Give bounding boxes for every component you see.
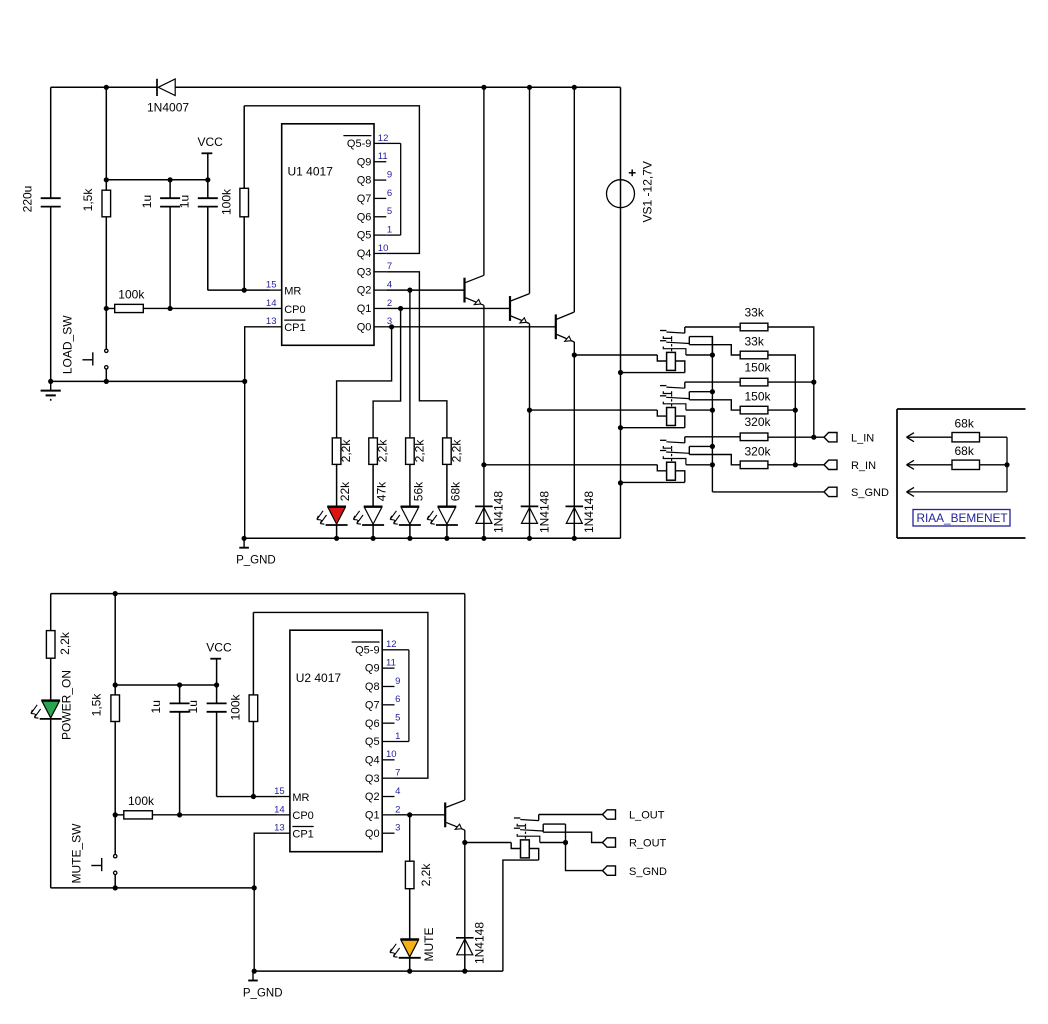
relay K4 contact 2 fixed stub: [514, 827, 520, 829]
wire relay K4 contact1 out to L_OUT: [539, 814, 603, 816]
ground earth symbol: [50, 381, 52, 390]
wire T1 emitter down: [483, 305, 485, 464]
wire VCC to MR pin15: [208, 289, 270, 291]
wire 150k#1 to L_IN bus: [768, 381, 814, 383]
svg-text:1N4148: 1N4148: [537, 491, 551, 533]
svg-text:7: 7: [387, 261, 392, 272]
wire mute switch rail: [51, 887, 255, 889]
wire switch ground rail: [51, 380, 245, 382]
wire relay K1 coil return to VS1: [621, 372, 685, 374]
RIAA_BEMENET title box: [913, 510, 1010, 527]
wire relay K3 armature to bus: [686, 464, 713, 466]
wire P_GND bottom rail lower: [253, 970, 503, 972]
resistor 2,2k LED column 1: [332, 438, 341, 465]
overline on Q5-9 label: [343, 135, 371, 137]
svg-text:14: 14: [266, 298, 277, 309]
capacitor C1 220u body: [50, 87, 52, 198]
svg-text:R_IN: R_IN: [851, 460, 876, 472]
svg-text:Q2: Q2: [365, 791, 380, 803]
node VS1 / relay3 return: [618, 480, 623, 485]
relay K2 coil left lead: [657, 410, 666, 416]
svg-text:100k: 100k: [128, 794, 155, 808]
U1 input pin stubs left side: [270, 289, 282, 291]
wire relay K4 coil return to ground rail: [503, 860, 539, 971]
svg-text:Q3: Q3: [365, 773, 380, 785]
resistor 320k row B: [740, 461, 768, 469]
svg-text:S_GND: S_GND: [629, 866, 667, 878]
svg-text:2,2k: 2,2k: [339, 439, 353, 463]
arrow into S_GND: [907, 491, 1008, 493]
LED POWER_ON green: [41, 699, 60, 701]
node L_IN bus / 150k#1: [811, 380, 816, 385]
svg-text:1: 1: [395, 731, 400, 742]
wire Q4 pin10 loop to MR network: [244, 106, 419, 254]
wire U2 Q1 pin2 to T4 base: [395, 814, 446, 816]
svg-text:2: 2: [387, 298, 392, 309]
relay K1 contact 2 riser wire: [688, 337, 690, 345]
svg-text:P_GND: P_GND: [236, 555, 276, 567]
wire T4 collector: [464, 594, 466, 800]
relay K3 contact 2 riser wire: [688, 446, 690, 454]
svg-text:Q1: Q1: [357, 303, 372, 315]
LED D4 indicator: [401, 506, 420, 508]
node lrail / C6 VCC: [214, 682, 219, 687]
wire U2 Q5-9/Q5 feedback bracket: [395, 649, 409, 651]
node 1N4148 #1 / ground rail: [481, 536, 486, 541]
resistor 2,2k LED column 4: [443, 438, 452, 465]
connector L_IN: [824, 433, 837, 442]
node T2 emitter / relay 2 feed: [527, 408, 532, 413]
relay K3 contact 1 movable arm: [666, 442, 684, 443]
relay K4 coil: [521, 840, 530, 858]
wire lower supply rail: [51, 593, 465, 595]
svg-text:Q6: Q6: [365, 718, 380, 730]
LED D2 red: [327, 506, 346, 508]
arrow into R_IN: [907, 464, 1008, 466]
node VS1 / relay2 return: [618, 425, 623, 430]
svg-text:5: 5: [387, 206, 392, 217]
relay K3 contact 1 fixed stub: [660, 439, 666, 441]
svg-text:68k: 68k: [448, 481, 462, 501]
wire Q5-9/Q5 feedback bracket: [386, 142, 400, 144]
resistor R3 100k horizontal: [106, 307, 114, 309]
svg-text:CP0: CP0: [284, 304, 305, 316]
relay K2 contact 2 riser wire: [688, 392, 690, 400]
relay K3 actuator dashed link: [671, 449, 673, 462]
switch S1 LOAD_SW push-button: [105, 349, 108, 352]
svg-text:56k: 56k: [411, 481, 425, 501]
relay K4 contact 1 movable arm: [520, 820, 538, 821]
node R_IN bus / 150k#2: [793, 408, 798, 413]
svg-text:LOAD_SW: LOAD_SW: [61, 315, 75, 374]
VS1 plus sign: [629, 172, 636, 174]
svg-text:1: 1: [387, 225, 392, 236]
relay K1 contact 1 fixed stub: [660, 330, 666, 332]
wire relay K2 contact2 outA to S_GND bus: [689, 391, 712, 393]
node mute rail / S2: [113, 885, 118, 890]
svg-text:Q4: Q4: [365, 754, 380, 766]
relay K2 coil right lead: [675, 416, 684, 428]
svg-text:1,5k: 1,5k: [81, 188, 95, 212]
node VS1 / relay1 return: [618, 370, 623, 375]
node rail / C2: [168, 177, 173, 182]
relay K1 contact 2 fixed stub: [660, 340, 666, 342]
wire Q2 branch to LED column 3: [409, 290, 411, 438]
svg-text:33k: 33k: [745, 335, 765, 349]
svg-text:2,2k: 2,2k: [58, 631, 72, 655]
wire relay K1 armature to bus: [686, 354, 713, 356]
switch S2 actuator: [101, 858, 103, 871]
svg-text:320k: 320k: [745, 415, 772, 429]
node bus / relay2 outA: [710, 389, 715, 394]
arrow into L_IN: [907, 436, 1008, 438]
wire relay K3 contact2 outB to resistor: [689, 455, 740, 465]
svg-text:Q4: Q4: [357, 248, 372, 260]
wire S_GND bus vertical: [711, 337, 713, 492]
node 1N4148 #3 / ground rail: [572, 536, 577, 541]
resistor R6 100k vertical lower: [252, 612, 254, 695]
node R7 / 1,5k lower: [113, 812, 118, 817]
svg-text:10: 10: [378, 243, 389, 254]
LED MUTE yellow: [400, 938, 419, 940]
wire S_GND bus to connector: [712, 491, 824, 493]
relay K2 armature bar: [663, 402, 686, 411]
wire T1 collector: [483, 87, 485, 275]
node Q1 lower branch: [407, 812, 412, 817]
overline on U2 CP1 label: [292, 826, 313, 828]
svg-text:9: 9: [395, 676, 400, 687]
svg-text:2,2k: 2,2k: [419, 863, 433, 887]
U1 output pin stubs right side: [374, 142, 386, 144]
svg-text:5: 5: [395, 713, 400, 724]
resistor R7 100k horizontal lower: [115, 814, 124, 816]
node R_IN bus / 320k#2: [793, 462, 798, 467]
svg-text:13: 13: [266, 316, 277, 327]
wire relay K4 contact2 outA to bus: [543, 823, 565, 825]
svg-text:68k: 68k: [955, 444, 975, 458]
relay K1 actuator dashed link: [671, 339, 673, 352]
wire S_GND lower bus: [566, 824, 603, 871]
node top rail / T3 collector: [572, 85, 577, 90]
svg-text:1N4148: 1N4148: [582, 491, 596, 533]
transistor T2: [509, 296, 511, 321]
resistor R5 1,5k lower: [114, 594, 116, 695]
svg-text:CP1: CP1: [292, 829, 313, 841]
resistor 150k row A: [740, 378, 768, 386]
relay K4 coil left lead: [511, 843, 520, 849]
wire relay K3 contact1 out to resistor: [685, 436, 740, 438]
resistor 320k row A: [740, 433, 768, 441]
relay K1 linkage tick bar: [663, 336, 671, 338]
relay K3 coil left lead: [657, 465, 666, 471]
svg-text:Q7: Q7: [357, 193, 372, 205]
node LED column 1 / ground rail: [334, 536, 339, 541]
svg-text:Q5-9: Q5-9: [355, 644, 379, 656]
wire R7 to U2 CP0: [152, 814, 277, 816]
svg-text:POWER_ON: POWER_ON: [60, 670, 74, 740]
capacitor C3 1u: [207, 180, 209, 198]
relay K1 contact 2 movable arm: [666, 342, 689, 343]
node bus / relay3 outA: [710, 444, 715, 449]
svg-text:12: 12: [386, 639, 397, 650]
node rail / S1: [104, 379, 109, 384]
svg-text:11: 11: [386, 658, 396, 669]
switch S2 MUTE_SW push-button: [114, 855, 117, 858]
node rail / left column: [48, 379, 53, 384]
svg-text:RIAA_BEMENET: RIAA_BEMENET: [917, 511, 1008, 525]
overline on CP1 label: [284, 319, 305, 321]
relay K1 contact 1 movable arm: [666, 332, 684, 333]
node T3 emitter / relay 1 feed: [572, 352, 577, 357]
resistor R4 2,2k power led: [50, 594, 52, 631]
overline on U2 Q5-9 label: [352, 641, 380, 643]
wire lower vcc rail: [115, 684, 216, 686]
relay K2 contact 2 movable arm: [666, 397, 689, 398]
svg-text:P_GND: P_GND: [243, 987, 283, 999]
svg-text:220u: 220u: [21, 186, 35, 213]
svg-text:MR: MR: [284, 285, 301, 297]
svg-text:2,2k: 2,2k: [376, 439, 390, 463]
svg-text:MR: MR: [292, 792, 309, 804]
RIAA_BEMENET box outline: [896, 409, 898, 538]
resistor 150k row B: [740, 406, 768, 414]
wire Q1 branch down to mute resistor: [409, 815, 411, 861]
svg-text:VS1 -12,7V: VS1 -12,7V: [641, 161, 655, 222]
node 1N4148 #2 / ground rail: [527, 536, 532, 541]
svg-text:1u: 1u: [177, 195, 191, 208]
wire relay K2 coil return to VS1: [621, 427, 685, 429]
node CP1 lower / switch rail: [252, 885, 257, 890]
wire T2 collector: [529, 87, 531, 293]
capacitor C6 1u lower: [216, 685, 218, 703]
resistor R8 2,2k mute: [405, 861, 414, 889]
svg-text:Q0: Q0: [357, 321, 372, 333]
resistor 68k #2: [952, 460, 980, 469]
relay K3 contact 2 fixed stub: [660, 450, 666, 452]
node bus / relay K2: [710, 408, 715, 413]
wire relay K4 contact2 outB to R_OUT: [543, 832, 602, 842]
wire relay K2 armature to bus: [686, 409, 713, 411]
relay K3 coil right lead: [675, 471, 684, 483]
relay K2 linkage tick bar: [663, 391, 671, 393]
svg-text:Q8: Q8: [365, 681, 380, 693]
LED D5 indicator: [438, 506, 457, 508]
svg-text:100k: 100k: [118, 287, 145, 301]
wire relay K4 coil feed: [465, 842, 511, 844]
svg-text:7: 7: [395, 768, 400, 779]
wire Q3 pin7 to LED column 4: [386, 272, 447, 438]
svg-text:L_IN: L_IN: [851, 432, 874, 444]
svg-text:1u: 1u: [140, 195, 154, 208]
svg-text:Q9: Q9: [365, 663, 380, 675]
node L_IN bus / 320k#1: [811, 435, 816, 440]
svg-text:U1 4017: U1 4017: [288, 165, 334, 179]
svg-text:Q3: Q3: [357, 266, 372, 278]
wire 33k#2 to R_IN bus: [768, 355, 795, 465]
transistor T3: [555, 314, 557, 339]
capacitor C2 1u: [169, 180, 171, 198]
resistor 2,2k LED column 2: [369, 438, 378, 465]
node top rail / 1,5k column: [104, 85, 109, 90]
node T1 emitter / relay 3 feed: [481, 462, 486, 467]
relay K1 contact 1 riser wire: [684, 327, 686, 333]
wire Q1 branch to LED column 2: [373, 308, 401, 437]
svg-text:33k: 33k: [745, 305, 765, 319]
node LED column 2 / ground rail: [371, 536, 376, 541]
relay K2 coil: [667, 408, 676, 426]
svg-text:1N4148: 1N4148: [492, 491, 506, 533]
svg-text:47k: 47k: [375, 481, 389, 501]
svg-text:1N4007: 1N4007: [147, 101, 189, 115]
wire T4 emitter down: [464, 830, 466, 842]
wire P_GND bottom rail upper: [244, 537, 620, 539]
svg-text:Q5: Q5: [357, 230, 372, 242]
wire Q0 branch to LED column 1: [337, 327, 392, 438]
resistor 2,2k LED column 3: [406, 438, 415, 465]
wire 68k join vertical: [1006, 437, 1008, 492]
wire 33k#1 to L_IN bus: [768, 327, 814, 437]
relay K2 actuator dashed link: [671, 394, 673, 407]
wire R3 to CP0 pin14: [143, 307, 269, 309]
wire T2 emitter down: [529, 324, 531, 410]
svg-text:Q5: Q5: [365, 736, 380, 748]
node U2 MR / R6: [251, 794, 256, 799]
svg-text:10: 10: [386, 749, 397, 760]
svg-text:1u: 1u: [149, 700, 163, 713]
svg-text:6: 6: [395, 694, 400, 705]
relay K2 contact 1 riser wire: [684, 382, 686, 388]
wire relay K1 contact2 outB to resistor: [689, 345, 740, 355]
resistor R2 100k vertical: [243, 106, 245, 189]
svg-text:6: 6: [387, 188, 392, 199]
relay K1 armature bar: [663, 347, 686, 356]
relay K1 coil right lead: [675, 361, 684, 373]
node mute led / ground rail: [407, 969, 412, 974]
wire Q1 pin2 to T2 base: [386, 307, 510, 309]
node rail / C3 VCC: [205, 177, 210, 182]
wire relay K1 contact1 out to resistor: [685, 326, 740, 328]
svg-text:MUTE_SW: MUTE_SW: [69, 823, 83, 884]
svg-text:CP1: CP1: [284, 322, 305, 334]
relay K1 coil left lead: [657, 355, 666, 361]
svg-text:Q7: Q7: [365, 699, 380, 711]
relay K4 contact 1 fixed stub: [514, 817, 520, 819]
transistor T4: [444, 802, 446, 827]
svg-text:1u: 1u: [186, 700, 200, 713]
relay K4 linkage tick bar: [517, 824, 525, 826]
transistor T1: [463, 278, 465, 303]
svg-text:15: 15: [266, 280, 277, 291]
svg-text:100k: 100k: [229, 693, 243, 720]
node MR / R2: [242, 288, 247, 293]
resistor R1 1,5k: [105, 87, 107, 190]
relay K4 contact 2 movable arm: [520, 830, 543, 831]
relay K2 contact 2 fixed stub: [660, 395, 666, 397]
svg-text:R_OUT: R_OUT: [629, 838, 667, 850]
node lower rail / 1,5k column: [113, 591, 118, 596]
svg-text:13: 13: [274, 823, 285, 834]
relay K3 coil: [667, 462, 676, 480]
svg-text:CP0: CP0: [292, 810, 313, 822]
svg-text:U2 4017: U2 4017: [296, 671, 342, 685]
wire relay 3 coil feed from transistor: [484, 464, 657, 466]
svg-text:1,5k: 1,5k: [90, 693, 104, 717]
svg-text:VCC: VCC: [198, 135, 224, 149]
connector R_IN: [824, 460, 837, 469]
node CP0 / C5: [177, 812, 182, 817]
svg-text:9: 9: [387, 169, 392, 180]
connector R_OUT: [603, 838, 616, 847]
relay K4 coil right lead: [529, 849, 538, 861]
ground P_GND symbol upper: [243, 538, 245, 547]
relay K3 linkage tick bar: [663, 446, 671, 448]
node rail / CP1 column: [242, 536, 247, 541]
node T4 emitter / relay feed: [462, 840, 467, 845]
relay K4 actuator dashed link: [525, 827, 527, 840]
svg-text:12: 12: [378, 133, 389, 144]
wire relay K2 contact2 outB to resistor: [689, 400, 740, 410]
wire T1 emitter to diode 1: [483, 465, 485, 507]
node Q0 branch: [389, 324, 394, 329]
wire relay 2 coil feed from transistor: [530, 409, 658, 411]
capacitor C5 1u lower: [179, 685, 181, 703]
relay K3 armature bar: [663, 456, 686, 465]
node LED column 4 / ground rail: [444, 536, 449, 541]
node lrail / C5: [177, 682, 182, 687]
node bus / relay K3: [710, 462, 715, 467]
wire U2 loop Q3 pin7 to MR network: [253, 612, 428, 778]
svg-text:15: 15: [274, 786, 285, 797]
node LED column 3 / ground rail: [407, 536, 412, 541]
wire relay K1 contact2 outA to S_GND bus: [689, 337, 712, 355]
relay K4 contact 1 riser wire: [538, 815, 540, 821]
wire U2 CP1 down to ground rail: [254, 833, 278, 971]
svg-text:2: 2: [395, 804, 400, 815]
switch S1 actuator: [92, 352, 94, 365]
node 68k join: [1004, 462, 1009, 467]
wire top supply rail: [51, 86, 157, 88]
svg-text:S_GND: S_GND: [851, 487, 889, 499]
wire 150k#2 to R_IN bus: [768, 409, 795, 411]
resistor 33k row B: [740, 351, 768, 359]
svg-text:320k: 320k: [745, 444, 772, 458]
wire relay K3 coil return to VS1: [621, 481, 685, 483]
svg-text:150k: 150k: [745, 390, 772, 404]
node CP1 column / switch rail: [242, 379, 247, 384]
relay K3 contact 1 riser wire: [684, 437, 686, 443]
svg-text:4: 4: [387, 280, 392, 291]
node R3 / 1,5k column: [104, 306, 109, 311]
wire T3 emitter to diode 3: [573, 355, 575, 506]
connector L_OUT: [603, 810, 616, 819]
svg-text:Q1: Q1: [365, 809, 380, 821]
svg-text:68k: 68k: [955, 416, 975, 430]
diode D1 1N4007: [156, 79, 158, 96]
U2 input pin stubs left side: [278, 796, 290, 798]
wire K4 armature to bus: [540, 842, 566, 844]
resistor 33k row A: [740, 323, 768, 331]
svg-text:Q8: Q8: [357, 175, 372, 187]
svg-text:L_OUT: L_OUT: [629, 810, 665, 822]
node lrail / 1,5k: [113, 682, 118, 687]
svg-text:2,2k: 2,2k: [412, 439, 426, 463]
node Q1 branch: [398, 306, 403, 311]
wire VCC to U2 MR pin15: [217, 796, 278, 798]
wire Q0 pin3 to T3 base: [386, 326, 556, 328]
svg-text:MUTE: MUTE: [422, 928, 436, 962]
diode 1N4148 lower: [464, 843, 466, 938]
wire CP1 pin13 down to ground rail: [245, 327, 270, 539]
